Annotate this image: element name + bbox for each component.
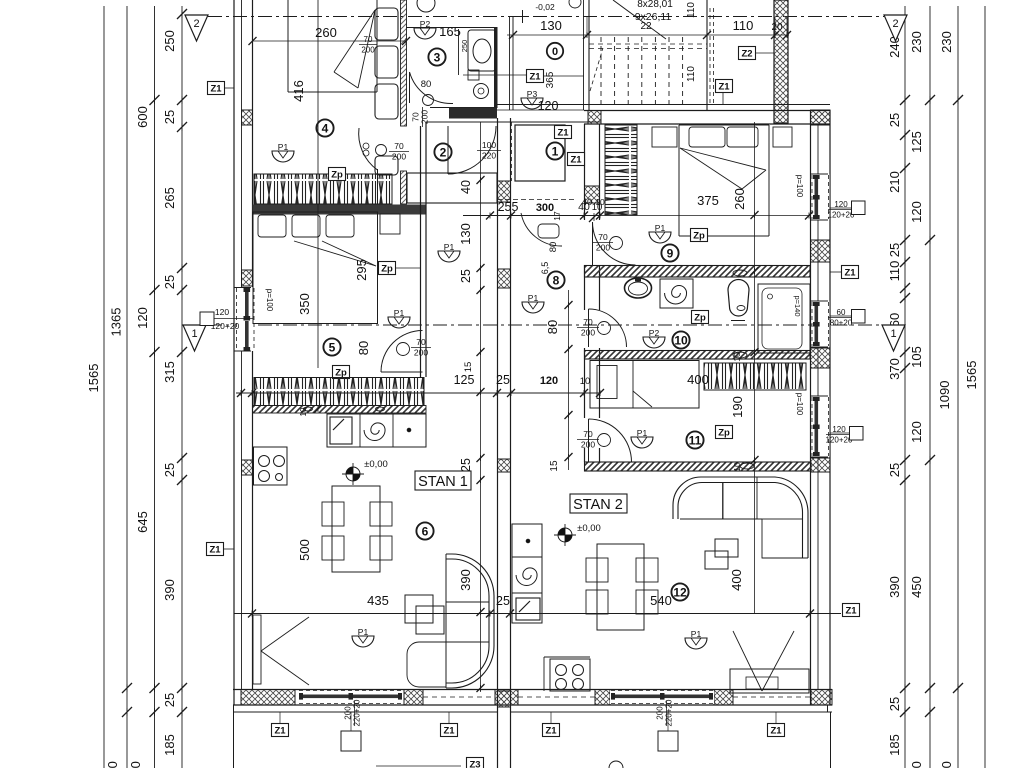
- door room9: [593, 222, 636, 265]
- TV STAN1: [253, 615, 261, 684]
- corridor 8 stan2: [568, 290, 570, 470]
- svg-text:70: 70: [598, 232, 608, 242]
- svg-text:25: 25: [162, 463, 177, 477]
- door room11: [589, 419, 632, 462]
- svg-text:416: 416: [291, 80, 306, 102]
- right exterior wall (lower wing): [810, 110, 812, 705]
- svg-text:2: 2: [440, 145, 447, 159]
- boiler: [468, 70, 479, 80]
- svg-text:435: 435: [367, 593, 389, 608]
- svg-text:375: 375: [697, 193, 719, 208]
- svg-text:25: 25: [459, 458, 473, 472]
- svg-text:Z1: Z1: [209, 545, 221, 556]
- svg-text:Z1: Z1: [274, 726, 286, 737]
- svg-text:265: 265: [162, 187, 177, 209]
- svg-text:Z1: Z1: [570, 155, 582, 166]
- svg-text:200: 200: [361, 46, 375, 55]
- svg-text:P1: P1: [637, 428, 648, 438]
- wardrobe strip room5 (zigzag): [254, 378, 424, 406]
- svg-text:200: 200: [581, 328, 595, 338]
- left exterior wall: [233, 0, 235, 705]
- door room2 arc: [448, 126, 496, 174]
- room3 top wall: [406, 27, 494, 29]
- svg-text:Zp: Zp: [335, 368, 347, 379]
- svg-text:3: 3: [434, 50, 441, 64]
- svg-text:80: 80: [545, 320, 560, 334]
- svg-text:70: 70: [583, 429, 593, 439]
- svg-text:250: 250: [162, 30, 177, 52]
- svg-text:2: 2: [892, 18, 898, 30]
- svg-text:p=100: p=100: [265, 289, 274, 312]
- svg-text:110: 110: [887, 261, 902, 282]
- svg-text:11: 11: [689, 433, 702, 447]
- svg-text:80: 80: [548, 242, 559, 253]
- svg-text:110: 110: [686, 66, 697, 82]
- svg-text:105: 105: [909, 346, 924, 368]
- svg-text:1365: 1365: [109, 308, 124, 337]
- wall room5/hall x420.5-426: [420, 126, 422, 377]
- svg-text:295: 295: [354, 259, 369, 281]
- svg-text:1: 1: [191, 328, 197, 340]
- svg-text:80+20: 80+20: [830, 319, 853, 328]
- dim row y215: [497, 199, 575, 201]
- svg-text:P1: P1: [691, 629, 702, 639]
- svg-text:P1: P1: [394, 308, 405, 318]
- svg-text:165: 165: [439, 24, 461, 39]
- svg-text:25: 25: [162, 693, 177, 707]
- door room4: [359, 128, 378, 170]
- svg-text:645: 645: [135, 511, 150, 533]
- svg-text:185: 185: [162, 734, 177, 756]
- svg-text:220+20: 220+20: [353, 699, 362, 726]
- svg-text:P1: P1: [278, 142, 289, 152]
- stairwell: [588, 0, 590, 110]
- svg-text:-0,02: -0,02: [535, 2, 555, 12]
- washing machine: [660, 279, 693, 308]
- svg-text:260: 260: [732, 188, 747, 210]
- svg-text:365: 365: [545, 71, 556, 88]
- svg-text:15: 15: [463, 362, 474, 373]
- svg-text:230: 230: [939, 31, 954, 53]
- svg-text:390: 390: [162, 579, 177, 601]
- svg-text:P2: P2: [649, 328, 660, 338]
- axis A (top): [208, 16, 884, 18]
- svg-text:100: 100: [105, 761, 120, 768]
- svg-text:500: 500: [297, 539, 312, 561]
- toilet bath10: [728, 280, 749, 317]
- svg-text:Zp: Zp: [694, 313, 706, 324]
- wardrobe room11 (zigzag): [704, 363, 806, 390]
- svg-text:315: 315: [162, 361, 177, 383]
- svg-text:8x28,01: 8x28,01: [637, 0, 673, 10]
- svg-text:190: 190: [730, 396, 745, 418]
- terrace lines: [233, 705, 235, 768]
- svg-text:70: 70: [416, 337, 426, 347]
- svg-text:400: 400: [729, 569, 744, 591]
- svg-text:120: 120: [538, 99, 559, 113]
- svg-text:110: 110: [686, 2, 697, 18]
- svg-text:250: 250: [460, 40, 469, 53]
- svg-text:210: 210: [887, 171, 902, 193]
- wall rooms4-5 dark band y204-215: [253, 205, 427, 215]
- svg-text:255: 255: [498, 200, 519, 214]
- wall room3/4 separator (hatched) x400-406: [401, 0, 407, 126]
- coffee table STAN2: [715, 539, 738, 557]
- svg-text:22: 22: [640, 21, 652, 32]
- svg-text:25: 25: [162, 110, 177, 124]
- svg-text:P2: P2: [420, 19, 431, 29]
- svg-text:300: 300: [939, 761, 954, 768]
- room9 dim line y215: [575, 215, 810, 217]
- svg-text:P1: P1: [444, 242, 455, 252]
- svg-text:P1: P1: [528, 293, 539, 303]
- svg-text:120+20: 120+20: [828, 211, 855, 220]
- svg-text:120: 120: [909, 201, 924, 223]
- left dim chain lines: [103, 6, 105, 768]
- svg-text:100: 100: [482, 140, 496, 150]
- sofa STAN1: [446, 554, 494, 688]
- svg-text:120+20: 120+20: [826, 436, 853, 445]
- top wall of lower wing y110-124: [584, 110, 830, 112]
- svg-text:Z1: Z1: [718, 82, 730, 93]
- svg-text:STAN 2: STAN 2: [573, 497, 623, 513]
- dim row y613: [234, 613, 841, 615]
- bath10 top wall y265-277: [585, 266, 811, 278]
- svg-text:Zp: Zp: [381, 264, 393, 275]
- svg-text:p=140: p=140: [793, 295, 802, 316]
- svg-text:120: 120: [540, 375, 558, 387]
- svg-text:P3: P3: [527, 89, 538, 99]
- svg-text:390: 390: [887, 576, 902, 598]
- svg-text:70: 70: [394, 141, 404, 151]
- svg-text:p=100: p=100: [795, 393, 804, 416]
- bed room5: [253, 212, 378, 324]
- svg-text:Z1: Z1: [443, 726, 455, 737]
- svg-text:0: 0: [552, 46, 558, 58]
- dim row y393: [236, 392, 601, 394]
- svg-text:130: 130: [540, 18, 562, 33]
- wall x509-513 (landing left): [509, 17, 511, 110]
- svg-text:Z1: Z1: [545, 726, 557, 737]
- svg-text:12: 12: [673, 585, 687, 599]
- kitchen STAN2: [512, 524, 542, 623]
- svg-text:260: 260: [315, 25, 337, 40]
- svg-text:125: 125: [454, 373, 475, 387]
- svg-text:1090: 1090: [937, 381, 952, 410]
- svg-text:40: 40: [459, 180, 473, 194]
- svg-text:25: 25: [887, 463, 902, 477]
- svg-text:120: 120: [909, 421, 924, 443]
- svg-text:220: 220: [482, 151, 496, 161]
- svg-text:10: 10: [674, 333, 688, 347]
- svg-text:200: 200: [420, 110, 430, 124]
- svg-text:120: 120: [215, 307, 229, 317]
- svg-text:1: 1: [552, 144, 559, 158]
- room3 toilet partition: [458, 29, 460, 75]
- svg-text:300: 300: [128, 761, 143, 768]
- svg-text:STAN 1: STAN 1: [418, 474, 468, 490]
- svg-text:1: 1: [890, 328, 896, 340]
- door room3: [410, 72, 454, 104]
- svg-text:Z1: Z1: [529, 72, 541, 83]
- vertical dim x754: [754, 122, 756, 519]
- bed room4: [287, 0, 289, 92]
- svg-text:9: 9: [667, 246, 674, 260]
- bed room11: [590, 361, 699, 409]
- stan1 wardrobe bottom wall strip y405.5-413: [253, 406, 427, 414]
- svg-text:25: 25: [459, 269, 473, 283]
- svg-text:Z3: Z3: [469, 760, 480, 768]
- door room8: [521, 213, 562, 246]
- svg-text:25: 25: [887, 697, 902, 711]
- svg-text:25: 25: [887, 113, 902, 127]
- svg-text:1565: 1565: [86, 364, 101, 393]
- svg-text:6,5: 6,5: [540, 262, 550, 275]
- svg-text:120+20: 120+20: [211, 321, 240, 331]
- dining table STAN1: [332, 486, 380, 572]
- stair dim row y35: [512, 17, 514, 37]
- svg-text:±0,00: ±0,00: [364, 459, 388, 470]
- svg-text:P1: P1: [655, 223, 666, 233]
- svg-text:25: 25: [496, 594, 510, 608]
- svg-text:8: 8: [553, 273, 560, 287]
- top-right wing exterior wall x774-788: [774, 0, 788, 123]
- svg-text:Z2: Z2: [741, 49, 752, 60]
- svg-text:80: 80: [356, 341, 371, 355]
- svg-text:Zp: Zp: [331, 170, 343, 181]
- kitchen counters STAN1: [326, 414, 328, 447]
- coffee table STAN1: [405, 595, 433, 623]
- room 3 bathroom: [414, 28, 436, 39]
- svg-text:130: 130: [458, 223, 473, 245]
- wardrobe strip room4 (zigzag): [254, 174, 392, 204]
- svg-text:10: 10: [299, 407, 308, 416]
- party wall x497.5-510.5: [497, 118, 499, 768]
- svg-text:Z1: Z1: [844, 268, 856, 279]
- svg-text:Z1: Z1: [557, 128, 569, 139]
- closet room1: [515, 125, 565, 181]
- svg-text:20: 20: [771, 22, 783, 33]
- svg-text:185: 185: [887, 734, 902, 756]
- svg-text:17: 17: [552, 211, 562, 221]
- svg-text:220+20: 220+20: [665, 699, 674, 726]
- svg-text:350: 350: [297, 293, 312, 315]
- room11 bottom wall y462-471: [585, 462, 812, 471]
- svg-text:125: 125: [909, 131, 924, 153]
- left Z1 labels: [208, 82, 225, 95]
- svg-text:370: 370: [887, 358, 902, 380]
- svg-text:6: 6: [422, 524, 429, 538]
- svg-text:200: 200: [596, 243, 610, 253]
- svg-text:230: 230: [909, 31, 924, 53]
- STAN2 label: [570, 494, 627, 513]
- svg-text:70: 70: [583, 317, 593, 327]
- svg-text:25: 25: [162, 275, 177, 289]
- svg-text:40: 40: [582, 197, 593, 208]
- TV STAN2: [730, 669, 809, 693]
- svg-text:25: 25: [887, 243, 902, 257]
- svg-text:Zp: Zp: [693, 231, 705, 242]
- door room5: [381, 331, 423, 373]
- svg-text:200: 200: [392, 152, 406, 162]
- bottom Z labels: [272, 724, 289, 737]
- bottom exterior wall: [233, 689, 832, 691]
- door bath10: [589, 309, 627, 347]
- svg-text:Z1: Z1: [770, 726, 782, 737]
- wall band y106-122 (below room 3 / landing): [430, 107, 497, 109]
- svg-text:80: 80: [421, 79, 432, 90]
- svg-text:P1: P1: [358, 627, 369, 637]
- washbasin room3: [468, 30, 496, 71]
- closet room2: [407, 173, 497, 203]
- shower bath10: [758, 284, 810, 353]
- bed room9: [678, 125, 680, 236]
- STAN1 label: [415, 471, 471, 490]
- svg-text:5: 5: [329, 340, 336, 354]
- svg-text:600: 600: [135, 106, 150, 128]
- svg-text:120: 120: [135, 307, 150, 329]
- svg-text:200: 200: [581, 440, 595, 450]
- corridor/rooms wall x584-600: [584, 124, 586, 220]
- svg-text:200: 200: [414, 348, 428, 358]
- sofa STAN2: [673, 477, 757, 519]
- dining table STAN2: [597, 544, 644, 630]
- toilet room3 top: [417, 0, 435, 12]
- room3 right wall dark x494-497: [494, 27, 498, 108]
- washbasin bath10: [625, 278, 652, 298]
- right dimension chains: [904, 6, 906, 768]
- svg-text:Z1: Z1: [845, 606, 857, 617]
- svg-text:400: 400: [687, 372, 709, 387]
- svg-text:Z1: Z1: [210, 84, 222, 95]
- svg-text:10: 10: [732, 352, 742, 362]
- svg-text:4: 4: [322, 121, 329, 135]
- svg-text:100: 100: [909, 761, 924, 768]
- svg-text:110: 110: [733, 18, 754, 33]
- svg-text:540: 540: [650, 593, 672, 608]
- bath10 bottom wall y350-359: [585, 351, 811, 360]
- svg-text:390: 390: [458, 569, 473, 591]
- corridor dims stan1: [480, 122, 482, 692]
- wardrobe room9 (zigzag vertical): [605, 125, 637, 215]
- svg-text:25: 25: [496, 373, 510, 387]
- axis B (middle): [208, 324, 880, 326]
- svg-text:200: 200: [656, 706, 665, 720]
- svg-text:±0,00: ±0,00: [577, 523, 601, 534]
- svg-text:70: 70: [364, 35, 373, 44]
- svg-text:1565: 1565: [964, 361, 979, 390]
- svg-text:Zp: Zp: [718, 428, 730, 439]
- svg-text:10: 10: [595, 197, 605, 207]
- svg-text:2: 2: [193, 18, 199, 30]
- svg-text:15: 15: [549, 460, 560, 472]
- wardrobe room4 boxes: [375, 8, 398, 40]
- svg-text:450: 450: [909, 576, 924, 598]
- svg-text:10: 10: [580, 376, 591, 387]
- svg-text:p=100: p=100: [795, 175, 804, 198]
